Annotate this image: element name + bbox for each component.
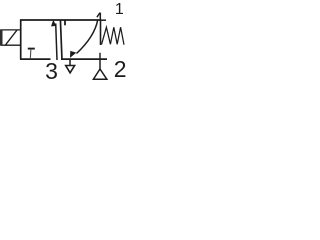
blocked port T stem [29, 49, 32, 59]
exhaust triangle small (apex down) [66, 66, 75, 73]
valve body top edge [20, 19, 100, 21]
port 1 arrow head (up) [97, 13, 100, 18]
exhaust triangle large (apex up) [93, 69, 106, 79]
svg-text:3: 3 [45, 58, 58, 84]
solenoid armature bar (thick black left edge) [0, 30, 3, 46]
exhaust port stem (below x100) [99, 59, 101, 69]
valve body right edge lower segment [99, 53, 101, 60]
exhaust port stem (below x70) [69, 59, 71, 65]
blocked port T crossbar (left square) [28, 48, 35, 50]
flow diagonal arrow head (down-left) [70, 51, 76, 58]
solenoid coil box Y1 [1, 30, 20, 45]
return spring zigzag [102, 27, 125, 45]
solenoid diagonal [5, 30, 17, 45]
svg-text:2: 2 [114, 56, 127, 82]
flow arrow shaft (left square, 1 to 2) [56, 24, 57, 61]
valve body left edge [20, 19, 22, 59]
top edge overhang right [100, 19, 106, 21]
flow diagonal shaft (right square) [77, 20, 98, 54]
flow arrow head (up) [51, 20, 56, 27]
solenoid bottom edge [1, 44, 21, 46]
valve body right edge upper segment [100, 19, 102, 45]
blocked port 2 stub (right square) [64, 20, 66, 25]
position divider [60, 20, 62, 60]
port 1 stub (top right) [99, 13, 101, 20]
svg-text:1: 1 [115, 1, 124, 18]
valve body bottom edge [20, 58, 51, 60]
valve body bottom edge right part [61, 58, 107, 60]
